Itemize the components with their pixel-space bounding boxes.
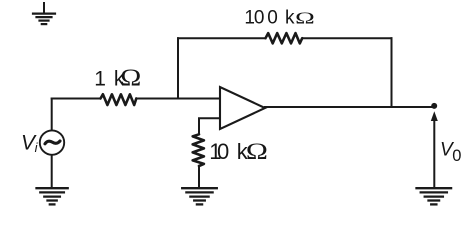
wire: feedback top left segment [178, 37, 266, 39]
wire: feedback right vertical [391, 38, 393, 107]
svg-text:i: i [35, 140, 39, 155]
node dot output [431, 103, 437, 109]
svg-text:Ω: Ω [120, 64, 141, 91]
ground (left) [37, 188, 68, 204]
arrow V0 shaft [433, 120, 435, 187]
wire: output [265, 106, 434, 108]
arrow V0 head [431, 111, 438, 121]
source Vi circle [40, 130, 64, 154]
svg-text:0: 0 [452, 147, 461, 165]
svg-text:10k: 10k [209, 139, 248, 164]
sine symbol inside source [45, 141, 60, 144]
wire: 10k to ground [198, 166, 200, 187]
resistor R2 100 kOhm [266, 33, 303, 43]
stray ground fragment top-left [33, 3, 55, 24]
resistor R1 1 kOhm [101, 94, 137, 105]
svg-text:Ω: Ω [246, 138, 268, 164]
wire: feedback left vertical [177, 38, 179, 98]
resistor R3 10 kOhm [193, 134, 204, 166]
wire: source to ground [51, 155, 53, 187]
ground (middle) [182, 188, 217, 204]
wire: source vertical [51, 99, 53, 131]
svg-text:100k: 100k [244, 8, 295, 29]
wire: main input left segment [52, 98, 100, 100]
svg-text:Ω: Ω [295, 8, 315, 27]
wire: feedback top right segment [303, 37, 392, 39]
op-amp U1 [220, 87, 265, 129]
ground (right) [417, 188, 452, 204]
wire: lower input to 10k [199, 118, 220, 134]
wire: main input right segment [136, 98, 220, 100]
